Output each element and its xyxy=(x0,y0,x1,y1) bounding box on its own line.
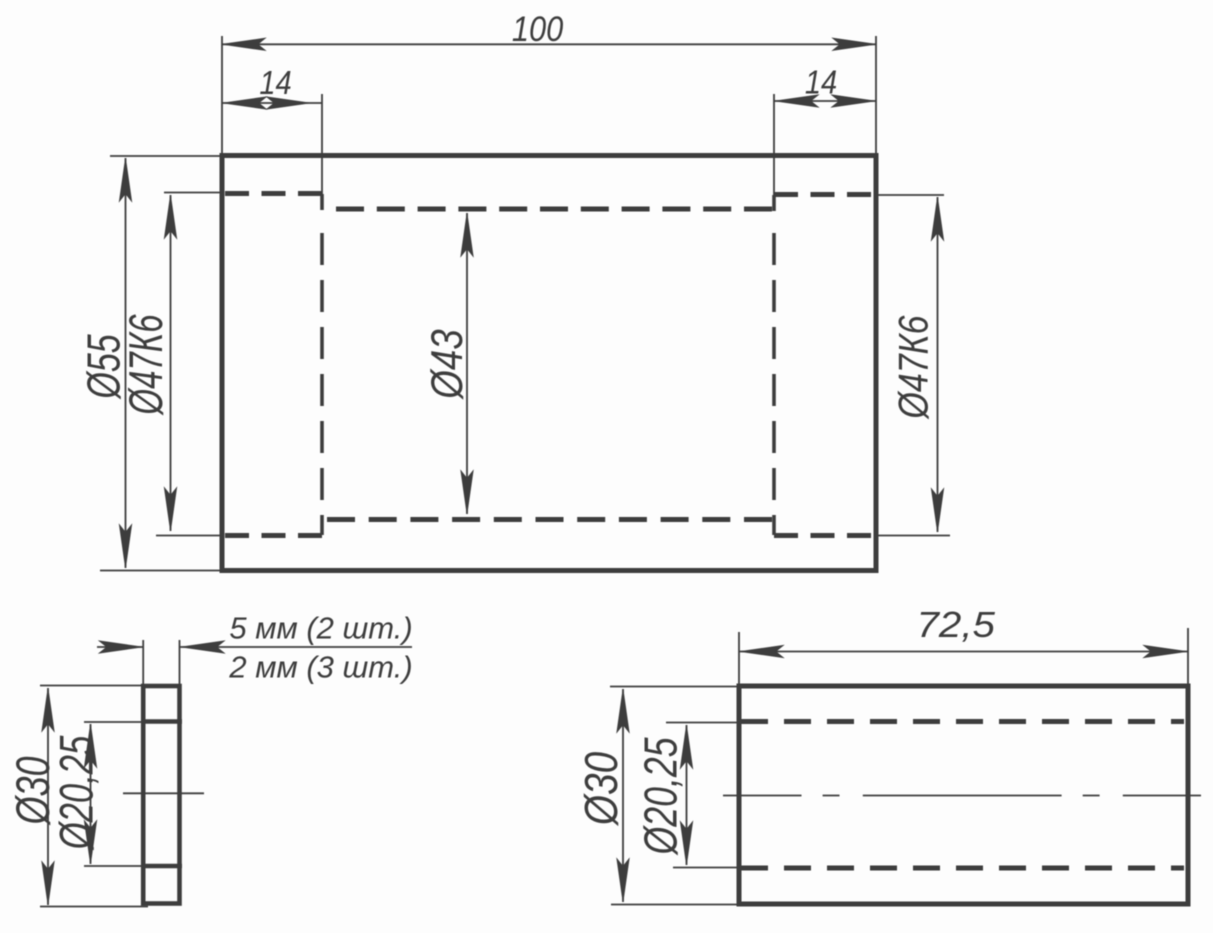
svg-text:Ø43: Ø43 xyxy=(422,329,472,401)
svg-text:72,5: 72,5 xyxy=(916,605,995,646)
outline main rectangle xyxy=(222,156,876,571)
extension line thickness right xyxy=(179,640,181,686)
center line bushing xyxy=(723,795,1201,797)
svg-text:Ø20,25: Ø20,25 xyxy=(635,737,686,856)
dimension line O20,25 xyxy=(90,724,92,864)
washer edge line 1 xyxy=(141,719,182,724)
dimension leader thickness right / fraction bar xyxy=(180,646,412,648)
bushing outline xyxy=(739,686,1188,904)
svg-text:Ø47К6: Ø47К6 xyxy=(891,315,937,421)
svg-text:100: 100 xyxy=(512,9,564,48)
svg-text:14: 14 xyxy=(259,64,291,101)
svg-text:14: 14 xyxy=(805,64,837,101)
svg-text:2 мм (3 шт.): 2 мм (3 шт.) xyxy=(228,650,412,685)
dimension line 14 left xyxy=(222,102,322,104)
extension line 14-left vertical xyxy=(321,94,323,194)
extension line O47K6 right bottom xyxy=(876,535,950,537)
extension line O20,25 bottom right view xyxy=(673,867,739,869)
extension line 72,5 left xyxy=(738,632,740,686)
extension line O20,25 top xyxy=(84,721,143,723)
extension line O30 bottom xyxy=(40,906,148,908)
extension line thickness left xyxy=(142,640,144,686)
dimension line O43 center xyxy=(466,213,468,514)
dimension line 72,5 xyxy=(739,651,1188,653)
extension line O55 top xyxy=(110,155,222,157)
svg-text:Ø47К6: Ø47К6 xyxy=(119,314,172,416)
svg-text:5 мм (2 шт.): 5 мм (2 шт.) xyxy=(229,611,412,646)
dimension line O20,25 right view xyxy=(686,725,688,865)
extension line top-right vertical for 100 xyxy=(875,36,877,155)
hidden bore line 47 bottom-left xyxy=(225,533,322,538)
center line washer stack xyxy=(123,792,204,794)
dimension line 100 xyxy=(222,43,876,45)
hidden bore line 43 top xyxy=(336,207,772,212)
hidden bore line bottom xyxy=(741,866,1184,871)
extension line 14-right vertical xyxy=(773,94,775,195)
extension line O20,25 bottom xyxy=(84,865,143,867)
extension line O47K6 right top xyxy=(876,194,944,196)
extension line O20,25 top right view xyxy=(666,722,739,724)
hidden bore line 47 top-left xyxy=(225,191,322,196)
dimension line O55 xyxy=(125,158,127,568)
dimension line O30 right view xyxy=(622,689,624,902)
hidden bore line top xyxy=(741,719,1184,724)
dimension line 14 right xyxy=(774,100,876,102)
dimension line O47K6 left xyxy=(170,195,172,531)
extension line O55 bottom xyxy=(100,570,222,572)
hidden step edge left xyxy=(320,194,324,210)
dimension line O30 xyxy=(47,688,49,905)
hidden bore line 43 bottom xyxy=(327,517,772,522)
extension line O47K6 left bottom xyxy=(156,535,222,537)
extension line O30 bottom right view xyxy=(611,904,739,906)
dimension line O47K6 right xyxy=(937,197,939,532)
washer stack outline xyxy=(143,686,179,904)
hidden bore line 47 top-right xyxy=(774,192,874,197)
extension line top-left vertical for 100 xyxy=(221,36,223,155)
svg-text:Ø20,25: Ø20,25 xyxy=(49,735,103,851)
dimension leader thickness left xyxy=(97,646,143,648)
svg-text:Ø30: Ø30 xyxy=(577,752,628,827)
extension line O47K6 left top xyxy=(164,192,222,194)
hidden bore line 47 bottom-right xyxy=(774,533,874,538)
extension line O30 top right view xyxy=(610,686,739,688)
extension line 72,5 right xyxy=(1187,628,1189,686)
hidden step edge right xyxy=(772,195,776,211)
washer edge line 2 xyxy=(141,864,182,869)
extension line O30 top xyxy=(40,685,143,687)
